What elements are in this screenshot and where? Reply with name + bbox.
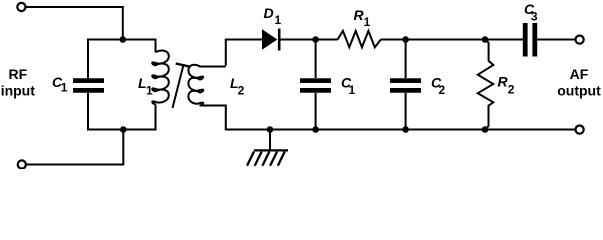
svg-text:2: 2 (508, 83, 515, 97)
svg-text:3: 3 (531, 9, 538, 23)
svg-text:AF: AF (570, 66, 589, 82)
svg-text:1: 1 (146, 83, 153, 97)
svg-text:2: 2 (238, 83, 245, 97)
svg-text:1: 1 (364, 15, 371, 29)
svg-text:input: input (1, 83, 36, 99)
svg-text:output: output (557, 83, 601, 99)
svg-text:1: 1 (275, 13, 282, 27)
svg-text:1: 1 (61, 80, 68, 94)
svg-text:D: D (264, 5, 274, 21)
svg-text:RF: RF (8, 66, 27, 82)
svg-text:2: 2 (439, 83, 446, 97)
svg-text:1: 1 (349, 83, 356, 97)
